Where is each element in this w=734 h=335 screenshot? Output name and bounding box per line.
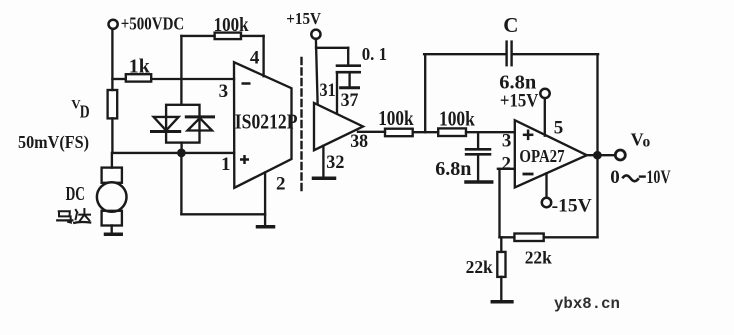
svg-text:4: 4 [250, 48, 260, 69]
svg-text:1: 1 [221, 154, 231, 175]
svg-text:0. 1: 0. 1 [362, 43, 387, 64]
svg-text:37: 37 [341, 90, 359, 111]
svg-text:10V: 10V [646, 166, 670, 188]
svg-text:o: o [643, 133, 651, 150]
svg-text:100k: 100k [378, 108, 414, 131]
svg-text:IS0212P: IS0212P [235, 111, 298, 134]
svg-text:100k: 100k [214, 14, 250, 37]
svg-text:31: 31 [320, 79, 336, 101]
svg-text:+500VDC: +500VDC [121, 13, 185, 34]
svg-text:32: 32 [326, 152, 344, 174]
svg-text:3: 3 [219, 81, 229, 102]
svg-text:38: 38 [350, 131, 368, 152]
svg-text:+15V: +15V [500, 90, 539, 111]
svg-text:22k: 22k [525, 247, 552, 267]
svg-text:2: 2 [502, 154, 512, 175]
svg-text:DC: DC [66, 182, 85, 204]
svg-text:ybx8.cn: ybx8.cn [554, 295, 620, 313]
svg-text:C: C [503, 13, 518, 37]
svg-text:6.8n: 6.8n [435, 158, 471, 180]
svg-text:5: 5 [554, 118, 564, 139]
svg-text:-15V: -15V [552, 196, 592, 217]
svg-text:D: D [80, 103, 90, 122]
svg-text:+15V: +15V [286, 10, 321, 28]
svg-text:2: 2 [276, 174, 286, 195]
svg-text:50mV(FS): 50mV(FS) [18, 132, 89, 152]
svg-text:3: 3 [502, 130, 512, 151]
svg-text:OPA27: OPA27 [519, 147, 564, 166]
svg-text:100k: 100k [439, 108, 475, 131]
svg-text:22k: 22k [466, 257, 493, 277]
svg-text:1k: 1k [129, 55, 151, 77]
svg-text:0: 0 [610, 167, 620, 188]
